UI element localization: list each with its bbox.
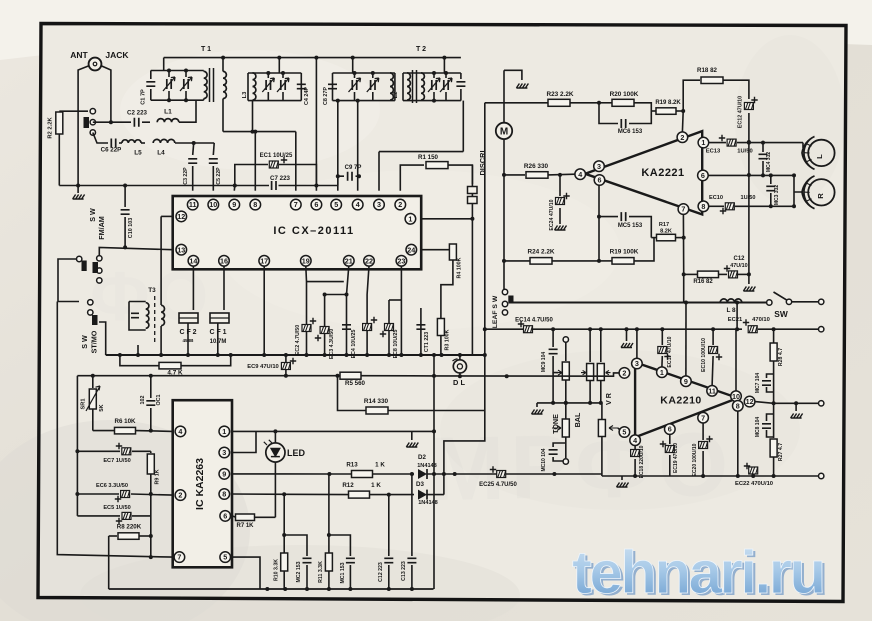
svg-text:470/10: 470/10 xyxy=(752,317,770,323)
ceramic filter CF2 xyxy=(192,266,194,310)
pin 4 U4 xyxy=(630,435,641,446)
svg-text:3: 3 xyxy=(222,448,226,457)
transformer T2 tank xyxy=(443,58,445,73)
electrolytic EC19 47U/10 xyxy=(669,435,671,445)
wire pin9 col xyxy=(685,303,687,377)
svg-text:EC20 100U/10: EC20 100U/10 xyxy=(692,443,698,476)
svg-text:19: 19 xyxy=(302,256,310,265)
pin 4 U3 xyxy=(175,426,186,437)
electrolytic EC8 10U/25 xyxy=(388,300,390,355)
wire motor top xyxy=(504,70,522,80)
terminal out1 xyxy=(819,401,824,406)
pin 12 wire xyxy=(161,215,173,217)
resistor R17 8.2K xyxy=(651,237,656,239)
svg-text:3: 3 xyxy=(635,359,639,368)
svg-text:EC10 100U/10: EC10 100U/10 xyxy=(701,338,707,372)
svg-text:C12 223: C12 223 xyxy=(378,562,384,582)
pin 5 U1 xyxy=(331,199,342,210)
capacitor C5 22P xyxy=(212,143,215,155)
svg-text:6: 6 xyxy=(598,176,602,185)
svg-text:1U/50: 1U/50 xyxy=(741,195,756,201)
svg-text:R20 100K: R20 100K xyxy=(610,91,639,98)
svg-text:8: 8 xyxy=(736,401,740,410)
svg-text:C2 223: C2 223 xyxy=(127,110,148,117)
antenna jack J1 xyxy=(89,58,102,71)
jog wire xyxy=(307,281,344,283)
pin 9 U4 xyxy=(681,376,692,387)
capacitor C3 22P xyxy=(193,143,194,155)
svg-text:EC14 4.7U/50: EC14 4.7U/50 xyxy=(515,318,553,324)
svg-text:L5: L5 xyxy=(134,150,142,157)
resistor R7 1K xyxy=(232,516,236,517)
svg-text:KA2221: KA2221 xyxy=(641,167,684,179)
wire pin2 KA2221 xyxy=(681,111,684,132)
svg-text:OC1: OC1 xyxy=(156,394,162,405)
resistor 4.7K xyxy=(120,355,159,366)
svg-text:7: 7 xyxy=(294,200,298,209)
bottom long wire xyxy=(109,588,434,590)
pin 2 U1 xyxy=(395,199,406,210)
svg-text:5: 5 xyxy=(223,553,227,562)
svg-text:FM/AM: FM/AM xyxy=(97,216,106,240)
svg-text:C8 27P: C8 27P xyxy=(323,87,329,105)
svg-text:47U/10: 47U/10 xyxy=(730,263,747,269)
capacitor MC2 153 xyxy=(284,535,307,556)
pin 19 U1 xyxy=(301,255,312,266)
svg-text:9: 9 xyxy=(684,377,688,386)
svg-text:R6 10K: R6 10K xyxy=(115,418,137,425)
wire pin10 col xyxy=(735,330,737,391)
svg-text:L2: L2 xyxy=(393,92,399,99)
svg-text:8: 8 xyxy=(222,490,226,499)
svg-text:R1 150: R1 150 xyxy=(418,154,439,161)
capacitor MC7 104 xyxy=(762,381,771,385)
svg-text:M: M xyxy=(500,127,508,138)
svg-text:L4: L4 xyxy=(157,150,165,157)
ground EC18 xyxy=(617,483,629,488)
svg-text:EC4 10U/25: EC4 10U/25 xyxy=(351,330,357,359)
pin 5 U3 xyxy=(220,552,231,563)
svg-text:S W: S W xyxy=(88,208,97,222)
pin5 wire xyxy=(232,557,260,589)
pin 8 U4 xyxy=(733,401,744,412)
svg-text:T 1: T 1 xyxy=(201,46,211,53)
pin 7 U3 xyxy=(174,552,185,563)
switch SW FM/AM upper contacts xyxy=(90,109,95,114)
resistor R9 1K xyxy=(150,451,152,453)
wire VR wiper to pin5 xyxy=(618,428,620,430)
electrolytic EC17 47U/10 xyxy=(661,329,663,345)
wire stereo switch xyxy=(58,259,79,302)
svg-text:EC13: EC13 xyxy=(706,149,721,155)
svg-text:EC8 10U/25: EC8 10U/25 xyxy=(393,330,399,359)
svg-text:4: 4 xyxy=(633,436,637,445)
resistor R6 10K xyxy=(93,430,114,432)
svg-text:C1 7P: C1 7P xyxy=(141,89,147,105)
pin 10 U4 xyxy=(731,391,742,402)
svg-text:D L: D L xyxy=(453,378,465,387)
svg-text:D2: D2 xyxy=(418,454,426,461)
svg-text:8.2K: 8.2K xyxy=(660,229,672,235)
svg-text:R24 2.2K: R24 2.2K xyxy=(528,249,555,256)
svg-text:6: 6 xyxy=(223,512,227,521)
svg-text:17: 17 xyxy=(260,256,268,265)
svg-text:R4 100K: R4 100K xyxy=(457,257,463,278)
svg-text:МРФО: МРФО xyxy=(429,415,735,520)
resistor R16 82 xyxy=(684,273,697,275)
svg-text:12: 12 xyxy=(177,212,185,221)
svg-text:R18 82: R18 82 xyxy=(697,67,718,74)
capacitor EC4 10U/25 xyxy=(342,325,351,329)
svg-text:TONE: TONE xyxy=(551,414,560,434)
svg-text:EC10: EC10 xyxy=(709,195,723,201)
svg-text:MC1 153: MC1 153 xyxy=(340,562,346,583)
diode D3 1N4148 xyxy=(418,490,427,500)
svg-text:ST/MO: ST/MO xyxy=(90,330,99,353)
headphone R xyxy=(802,176,835,209)
IC U3 KA2263 body xyxy=(173,400,232,567)
wire pin1 line xyxy=(232,430,434,432)
pin 13 wire xyxy=(99,247,172,258)
svg-text:EC18 220U/10: EC18 220U/10 xyxy=(639,445,645,478)
ceramic filter CF1 xyxy=(223,266,225,310)
svg-text:BAL: BAL xyxy=(573,412,582,427)
resistor R5 560 xyxy=(340,372,361,379)
capacitor C7 223 xyxy=(272,181,276,190)
pin 1 wire to discri node xyxy=(421,218,472,220)
svg-text:10: 10 xyxy=(732,392,740,401)
svg-text:R26 330: R26 330 xyxy=(524,163,549,170)
pin 10 U1 xyxy=(208,199,219,210)
audio line y376 xyxy=(77,375,345,377)
svg-text:MC10 104: MC10 104 xyxy=(541,448,547,471)
wire pin7 col xyxy=(682,215,684,303)
svg-text:21: 21 xyxy=(345,256,353,265)
pin5 wire xyxy=(337,101,339,191)
svg-text:CT1 223: CT1 223 xyxy=(424,332,430,352)
electrolytic EC9 47U/10 xyxy=(285,355,287,376)
wire R8 to bottom xyxy=(108,536,110,589)
svg-text:7: 7 xyxy=(701,413,705,422)
svg-text:9: 9 xyxy=(232,200,236,209)
leaf switch LEAF SW xyxy=(502,289,507,294)
capacitor C12e 47U/10 xyxy=(729,271,738,278)
terminal SW left xyxy=(767,300,772,305)
capacitor C12 223 xyxy=(388,495,390,556)
svg-text:R14 330: R14 330 xyxy=(364,398,389,405)
resistor R18 82 xyxy=(683,80,700,111)
coil L8 xyxy=(720,299,742,303)
svg-text:R: R xyxy=(816,193,825,199)
svg-text:R17: R17 xyxy=(659,222,669,228)
wire pin8 col xyxy=(737,411,739,476)
pin17 wire xyxy=(263,266,265,355)
pin22 wire xyxy=(367,266,369,355)
pin 12 U4 xyxy=(744,396,755,407)
wire MC9 col down xyxy=(552,373,554,403)
electrolytic EC10b 100U/10 xyxy=(712,329,714,345)
pin21 wire xyxy=(347,266,349,355)
riser col 434 xyxy=(433,355,435,589)
svg-text:2: 2 xyxy=(622,369,626,378)
resistor R13 1K xyxy=(352,471,373,478)
capacitor C6 22P xyxy=(93,133,108,144)
power rail y329 xyxy=(485,328,523,330)
svg-text:L3: L3 xyxy=(242,91,248,99)
svg-text:1 K: 1 K xyxy=(375,462,385,469)
capacitor C2 223 xyxy=(93,121,131,123)
svg-text:R16 82: R16 82 xyxy=(693,279,713,285)
wire IF line y131 xyxy=(223,131,296,133)
svg-text:R7 1K: R7 1K xyxy=(236,523,254,529)
svg-text:2: 2 xyxy=(680,133,684,142)
svg-text:C7 223: C7 223 xyxy=(270,175,291,182)
wire pin12 to T3 xyxy=(160,216,162,299)
svg-text:12: 12 xyxy=(746,397,754,406)
wire pin1 ground stub xyxy=(411,431,413,440)
svg-text:6: 6 xyxy=(668,425,672,434)
resistor R19 8.2K xyxy=(651,110,656,112)
ground motor xyxy=(516,84,528,89)
svg-text:14: 14 xyxy=(189,256,197,265)
electrolytic EC20 100U/10 xyxy=(702,423,704,440)
pin 3 U2 xyxy=(594,161,605,172)
electrolytic EC12 47U/10 xyxy=(744,103,753,110)
resistor R12 1K xyxy=(349,491,370,498)
wire to bus xyxy=(99,322,106,355)
line pin8 R12 D3 xyxy=(232,493,348,496)
capacitor CT1 223 xyxy=(420,308,422,355)
pin7 wire xyxy=(295,132,297,191)
bus wire y355 xyxy=(106,354,485,356)
svg-text:3: 3 xyxy=(597,162,601,171)
ground pots xyxy=(532,410,544,415)
svg-text:EC19 47U/10: EC19 47U/10 xyxy=(673,443,679,473)
electrolytic EC6 3.3U/50 xyxy=(77,493,119,495)
resistor R11 3.3K xyxy=(328,474,330,554)
ground bus xyxy=(621,476,623,480)
pin 6b U2 xyxy=(698,170,709,181)
svg-text:MC8 104: MC8 104 xyxy=(755,417,761,438)
resistor R23 2.2K xyxy=(485,102,548,104)
transformer T1 xyxy=(204,71,207,98)
svg-text:JACK: JACK xyxy=(105,50,129,60)
potentiometer SR1 5K xyxy=(92,376,94,388)
svg-text:11: 11 xyxy=(708,386,716,395)
ground stub xyxy=(536,403,538,407)
svg-text:R12: R12 xyxy=(342,482,354,489)
svg-text:4: 4 xyxy=(178,427,182,436)
ground jack xyxy=(73,195,85,200)
svg-text:R5 560: R5 560 xyxy=(345,380,366,387)
pin 2 U2 xyxy=(677,132,688,143)
svg-text:EC3 4.3U/50: EC3 4.3U/50 xyxy=(329,329,335,359)
capacitor MC10 104 xyxy=(549,450,558,454)
wire output gnd xyxy=(795,403,797,411)
capacitor MC5 153 xyxy=(599,217,618,261)
electrolytic EC18 220U/10 xyxy=(634,445,636,449)
wire jack to ground bus xyxy=(78,66,88,186)
op-amp U4 KA2210 xyxy=(635,362,738,437)
ground output xyxy=(791,414,803,419)
capacitor MC9 104 column xyxy=(552,329,554,347)
long left wire xyxy=(57,302,172,558)
electrolytic EC5 1U/50 xyxy=(77,515,120,517)
wire DL to pin2 xyxy=(434,373,619,376)
svg-text:6: 6 xyxy=(701,171,705,180)
svg-text:R9 1K: R9 1K xyxy=(155,469,161,484)
svg-text:C F 2: C F 2 xyxy=(179,329,196,336)
pin 9 U3 xyxy=(219,469,230,480)
svg-text:IC KA2263: IC KA2263 xyxy=(194,458,206,510)
svg-text:2: 2 xyxy=(398,200,402,209)
svg-text:R27 4.7: R27 4.7 xyxy=(778,443,784,461)
svg-text:C F 1: C F 1 xyxy=(209,329,226,336)
terminal tone top xyxy=(563,337,568,342)
resistor R4 100K xyxy=(421,244,453,250)
svg-text:C3 22P: C3 22P xyxy=(183,167,189,185)
capacitor C10 103 xyxy=(124,186,126,208)
svg-text:5: 5 xyxy=(334,200,338,209)
svg-text:10: 10 xyxy=(209,200,217,209)
wire discri column xyxy=(484,103,486,411)
svg-text:11: 11 xyxy=(189,200,197,209)
svg-text:R8 220K: R8 220K xyxy=(117,524,142,531)
electrolytic EC3 4.3U/50 xyxy=(324,295,326,356)
svg-text:5: 5 xyxy=(622,428,626,437)
pin 13 U1 xyxy=(176,244,187,255)
pin 8 U1 xyxy=(250,199,261,210)
capacitor MC8 104 xyxy=(762,424,771,428)
svg-text:EC6 3.3U/50: EC6 3.3U/50 xyxy=(96,483,128,489)
svg-text:13: 13 xyxy=(177,245,185,254)
electrolytic EC2 4.7U/50 xyxy=(302,325,311,332)
capacitor OC1 102 xyxy=(150,376,152,398)
pin 4 U2 xyxy=(575,169,586,180)
op-amp U2 KA2221 xyxy=(585,131,702,214)
pin 24 U1 xyxy=(406,244,417,255)
resistor R20 100K xyxy=(599,102,612,104)
diode D2 1N4148 xyxy=(418,469,427,479)
svg-text:C13 223: C13 223 xyxy=(401,561,407,581)
svg-text:4: 4 xyxy=(578,170,582,179)
svg-text:T3: T3 xyxy=(148,287,156,294)
capacitor MC3 332 xyxy=(770,175,772,184)
svg-text:7: 7 xyxy=(177,553,181,562)
pin 1 U3 xyxy=(219,426,230,437)
wire pin6 KA2221 xyxy=(708,174,794,176)
svg-text:R2 2.2K: R2 2.2K xyxy=(48,117,54,139)
left column wire xyxy=(76,376,78,516)
pin 14 U1 xyxy=(188,255,199,266)
svg-text:EC17 47U/10: EC17 47U/10 xyxy=(667,336,673,367)
pin 2 U4 xyxy=(619,368,630,379)
capacitor C13 223 xyxy=(411,474,413,556)
pin 21 U1 xyxy=(344,255,355,266)
svg-text:C10 103: C10 103 xyxy=(128,218,134,238)
coil L5 xyxy=(122,140,141,143)
svg-text:24: 24 xyxy=(407,245,415,254)
capacitor C9 7P xyxy=(338,176,344,185)
pin 17 U1 xyxy=(259,255,270,266)
pin 7 U2 xyxy=(678,204,689,215)
pin 22 U1 xyxy=(364,255,375,266)
pin 6 U1 xyxy=(311,199,322,210)
svg-text:DISCRI: DISCRI xyxy=(478,150,487,175)
svg-text:R13: R13 xyxy=(346,462,358,469)
svg-text:1: 1 xyxy=(701,138,705,147)
potentiometer TONE lower xyxy=(562,419,569,437)
svg-text:EC22 470U/10: EC22 470U/10 xyxy=(735,481,773,487)
potentiometer TONE upper xyxy=(562,362,569,380)
electrolytic EC21 470/10 xyxy=(748,326,757,333)
svg-text:EC12 47U/10: EC12 47U/10 xyxy=(738,96,744,128)
wire LED top xyxy=(274,431,276,443)
svg-text:L 8: L 8 xyxy=(726,307,736,314)
svg-text:MC4 332: MC4 332 xyxy=(766,152,772,173)
pin23 wire xyxy=(400,266,402,355)
svg-text:23: 23 xyxy=(397,256,405,265)
wire jack to input node xyxy=(102,66,111,122)
svg-text:SR1: SR1 xyxy=(81,399,87,410)
svg-text:7: 7 xyxy=(681,205,685,214)
electrolytic EC13 1U/50 xyxy=(709,142,726,144)
dial lamp DL xyxy=(459,355,461,360)
svg-text:C6 22P: C6 22P xyxy=(101,147,122,154)
svg-text:EC21: EC21 xyxy=(728,317,743,323)
capacitor MC1 153 xyxy=(329,535,351,556)
pin 2 U3 xyxy=(175,490,186,501)
svg-text:EC1 10U/25: EC1 10U/25 xyxy=(260,153,293,159)
wire LED to R7 xyxy=(274,462,276,517)
svg-text:L: L xyxy=(815,154,824,159)
headphone L xyxy=(802,137,835,170)
pin19 wire xyxy=(305,266,308,355)
svg-text:1: 1 xyxy=(408,214,412,223)
pin 1 U4 xyxy=(657,367,668,378)
svg-text:EC7 1U/50: EC7 1U/50 xyxy=(103,458,130,464)
svg-text:MC9 104: MC9 104 xyxy=(541,352,547,373)
pin 1 U2 xyxy=(698,137,709,148)
svg-text:SW: SW xyxy=(774,309,788,319)
tank 1 with C1 7P and trimmers xyxy=(163,58,165,71)
pin 4 U1 xyxy=(352,199,363,210)
svg-text:tehnari.ru: tehnari.ru xyxy=(572,539,824,606)
svg-text:D3: D3 xyxy=(416,481,424,488)
svg-text:458B: 458B xyxy=(183,338,195,343)
electrolytic EC22 470U/10 xyxy=(749,467,758,474)
svg-text:MC6 153: MC6 153 xyxy=(618,129,643,135)
supply bus to SW xyxy=(514,302,767,304)
electrolytic EC15 4.7U/50 xyxy=(453,472,457,476)
wire apex to output xyxy=(755,402,774,404)
svg-text:C12: C12 xyxy=(733,256,745,262)
pin 9 U1 xyxy=(229,199,240,210)
svg-text:8: 8 xyxy=(701,202,705,211)
svg-text:EC25 4.7U/50: EC25 4.7U/50 xyxy=(479,482,517,488)
svg-text:EC9 47U/10: EC9 47U/10 xyxy=(247,364,279,370)
tank 2 with L3, trimmers, C4 24P xyxy=(278,58,280,73)
pin 8 U2 xyxy=(698,201,709,212)
IC U1 CX-20111 body xyxy=(173,196,422,269)
bottom bus right xyxy=(601,474,603,476)
ground EC24 xyxy=(555,226,567,231)
svg-text:R10 3.3K: R10 3.3K xyxy=(274,559,280,581)
pin9 wire xyxy=(233,186,236,191)
pin3 wire xyxy=(378,152,380,191)
wire T2 to pin3 line xyxy=(462,101,464,152)
pin 5 U4 xyxy=(619,427,630,438)
